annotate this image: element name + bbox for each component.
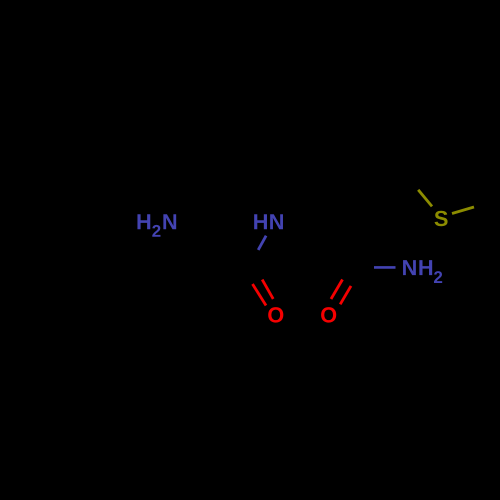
wire C=O right carbonyl double bond line 1 (red half) xyxy=(331,280,343,300)
atom label HN (amide nitrogen) xyxy=(254,214,283,229)
wire C=O left carbonyl double bond line 1 (red half) xyxy=(253,284,267,306)
wire S-CH3 bond (yellow half, right of S) xyxy=(452,207,474,214)
atom label NH2 (amide nitrogen) xyxy=(403,260,442,283)
wire C=O left carbonyl double bond line 2 (red half) xyxy=(262,280,273,299)
atom label H2N (amine nitrogen) xyxy=(137,214,176,236)
atom label O (left carbonyl oxygen) xyxy=(268,307,283,322)
wire C-N bond to NH2 (blue half, horizontal) xyxy=(374,266,396,269)
wire N-C amide bond (blue half, from HN down-left) xyxy=(258,236,266,250)
wire C=O right carbonyl double bond line 2 (red half) xyxy=(340,286,351,304)
wire CH2-S bond (yellow half, upper-left of S) xyxy=(418,190,432,207)
atom label O (right carbonyl oxygen) xyxy=(321,307,336,322)
atom label S (thioether sulfur) xyxy=(435,211,448,226)
